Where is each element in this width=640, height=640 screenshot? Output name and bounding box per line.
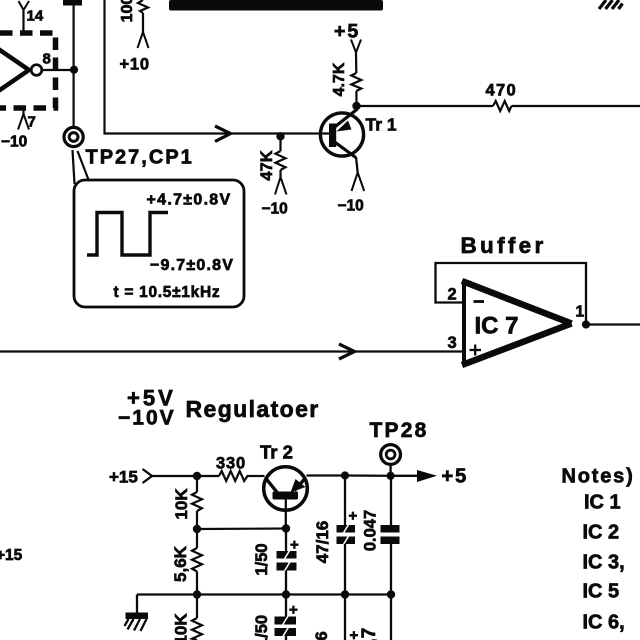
svg-text:−9.7±0.8V: −9.7±0.8V xyxy=(150,257,234,274)
svg-text:−10: −10 xyxy=(338,198,364,215)
svg-text:1/50: 1/50 xyxy=(253,543,271,575)
node: divider tap xyxy=(193,472,201,480)
node: 10K/5.6K tap xyxy=(193,525,201,533)
pin 14 connector xyxy=(22,10,24,33)
svg-text:TP27,CP1: TP27,CP1 xyxy=(86,147,194,169)
svg-text:+: + xyxy=(289,602,298,619)
+5 output arrow xyxy=(391,475,419,477)
wire: +15 run xyxy=(152,475,219,477)
waveform square wave xyxy=(87,213,168,256)
svg-text:+: + xyxy=(350,627,359,640)
transistor Tr1 xyxy=(320,113,363,156)
svg-text:IC 5: IC 5 xyxy=(583,581,620,603)
wire: clock feed vertical + horizontal run to Tr1 xyxy=(105,0,332,134)
pin 7 connector xyxy=(22,108,24,114)
svg-text:1/50: 1/50 xyxy=(253,615,271,640)
svg-text:+15: +15 xyxy=(109,468,138,487)
node: IC7 output xyxy=(582,320,590,328)
node: TP28 rail junctions xyxy=(341,471,349,479)
svg-text:10K: 10K xyxy=(172,488,191,520)
resistor 5.6K xyxy=(196,529,198,548)
signal arrow (top run) xyxy=(215,126,231,142)
svg-text:Buffer: Buffer xyxy=(461,233,547,258)
wire: feedback loop box xyxy=(436,263,587,324)
IC dashed package box xyxy=(0,33,56,108)
wire: Tr2 base stem xyxy=(285,500,287,529)
capacitor 0.047 xyxy=(390,476,392,525)
wire: top run to right edge xyxy=(357,105,494,107)
resistor 47K xyxy=(279,136,281,151)
wire: input run to pin 3 xyxy=(0,350,464,352)
wire: output to right edge xyxy=(586,323,640,325)
node: 47K tap xyxy=(276,132,284,140)
resistor 10K xyxy=(196,476,198,492)
hatch mark top-right xyxy=(599,0,623,9)
svg-text:7: 7 xyxy=(28,114,36,131)
svg-text:−10: −10 xyxy=(262,201,288,218)
svg-text:+15: +15 xyxy=(0,547,23,564)
inverter output bubble xyxy=(31,65,42,76)
svg-text:8: 8 xyxy=(43,51,51,68)
svg-text:Notes): Notes) xyxy=(562,466,635,488)
svg-text:IC 1: IC 1 xyxy=(584,492,621,514)
svg-text:10K: 10K xyxy=(172,613,191,640)
svg-text:−10: −10 xyxy=(1,134,27,151)
svg-text:2: 2 xyxy=(448,286,457,304)
svg-text:0.047: 0.047 xyxy=(362,510,380,551)
wire: vertical to TP27 xyxy=(72,0,74,128)
svg-text:+5: +5 xyxy=(442,466,469,488)
svg-text:6: 6 xyxy=(312,631,331,640)
svg-text:4.7K: 4.7K xyxy=(331,62,348,96)
svg-text:5,6K: 5,6K xyxy=(171,545,190,582)
svg-text:470: 470 xyxy=(486,82,517,100)
svg-text:Tr 1: Tr 1 xyxy=(366,115,397,135)
capacitor 4.7 (lower right, partial) xyxy=(390,595,392,640)
capacitor 47/16 xyxy=(344,476,346,526)
callout balloon xyxy=(74,180,244,307)
svg-text:+: + xyxy=(290,537,299,554)
transistor Tr2 xyxy=(264,467,308,511)
svg-text:Tr 2: Tr 2 xyxy=(260,442,293,463)
wire: ground rail xyxy=(137,593,391,595)
resistor 4.7K xyxy=(351,73,361,91)
inverter gate U (left, partial) xyxy=(0,46,29,94)
node: Tr1 collector junction xyxy=(352,102,360,110)
svg-text:47/16: 47/16 xyxy=(313,521,332,564)
svg-text:TP28: TP28 xyxy=(370,419,429,442)
capacitor 47/16 (lower, partial label) xyxy=(344,595,346,640)
capacitor 1/50 (upper) xyxy=(285,529,287,552)
svg-text:47K: 47K xyxy=(258,150,276,180)
wire: tap to Tr2 base xyxy=(197,527,286,530)
svg-text:100: 100 xyxy=(119,0,136,22)
svg-text:IC 7: IC 7 xyxy=(475,313,519,340)
svg-text:t = 10.5±1kHz: t = 10.5±1kHz xyxy=(114,284,221,301)
svg-text:+5: +5 xyxy=(334,21,360,43)
resistor 100 (partial, top) xyxy=(138,0,148,13)
op-amp IC7 xyxy=(464,282,571,365)
svg-text:Regulatoer: Regulatoer xyxy=(186,396,320,422)
signal arrow (mid run) xyxy=(339,344,355,359)
svg-text:IC 2: IC 2 xyxy=(583,522,620,544)
svg-text:+4.7±0.8V: +4.7±0.8V xyxy=(147,192,232,209)
svg-text:+: + xyxy=(349,508,358,525)
resistor 470 xyxy=(493,101,512,111)
svg-text:−10V: −10V xyxy=(118,407,176,430)
resistor 330 xyxy=(219,471,251,481)
bus bar (thick) xyxy=(169,0,383,11)
svg-text:330: 330 xyxy=(216,455,246,473)
ground xyxy=(136,595,138,614)
resistor 10K (bottom, partial) xyxy=(196,595,198,619)
svg-text:3: 3 xyxy=(448,334,457,352)
wire: Tr1 emitter to -10 xyxy=(356,157,358,173)
svg-text:1: 1 xyxy=(576,304,585,321)
test point TP27 xyxy=(64,127,83,146)
svg-text:4,7: 4,7 xyxy=(359,628,380,640)
svg-text:+10: +10 xyxy=(120,56,150,74)
wire: Tr2 emitter out xyxy=(307,474,346,476)
svg-text:IC 6,: IC 6, xyxy=(583,612,625,634)
svg-text:14: 14 xyxy=(27,8,44,25)
capacitor 1/50 (lower, partial) xyxy=(285,595,287,617)
svg-text:IC 3,: IC 3, xyxy=(583,552,625,574)
wire: bubble to junction xyxy=(42,69,75,71)
node: output junction xyxy=(70,66,78,74)
